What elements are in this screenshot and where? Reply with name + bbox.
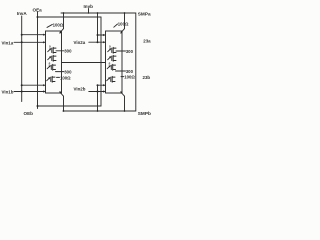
arrow Vin2b into box	[103, 90, 106, 92]
node InvA y34.7 dot	[21, 34, 23, 36]
wire jog x63.5 bottom	[63, 96, 65, 111]
svg-text:300: 300	[126, 69, 134, 74]
svg-text:δ: δ	[109, 45, 111, 49]
transistor Q1	[48, 47, 56, 53]
node Vin1b dot	[21, 91, 23, 93]
wire Q1 output to 300 dash	[56, 50, 62, 52]
svg-text:OEb: OEb	[24, 111, 34, 116]
wire OE right rail x101	[100, 17, 102, 106]
svg-text:23b: 23b	[143, 75, 151, 80]
arrow Vin1a into box	[43, 41, 46, 43]
svg-text:δ: δ	[109, 62, 111, 66]
node OEb junction	[37, 105, 39, 107]
svg-text:SMPb: SMPb	[138, 111, 151, 116]
arrow y35 into right box	[103, 34, 106, 36]
arrow y34.7 into box	[43, 34, 46, 36]
node right y35 dot	[97, 34, 99, 36]
node x97.5 y13 dot	[97, 12, 99, 14]
wire SMPa rail y13 and right rail and SMPb rail y111	[61, 13, 136, 111]
transistor Q7	[107, 64, 115, 70]
wire Vin2b y91.5	[89, 91, 104, 93]
node left y85.2 dot	[21, 84, 23, 86]
arrow Vin1b into box	[43, 90, 46, 92]
leader 100ohm bottom-right	[121, 76, 124, 78]
wire OEa horizontal y17	[38, 16, 102, 18]
leader 100ohm top-left	[47, 24, 52, 27]
svg-text:δ: δ	[49, 62, 51, 66]
wire InvA rail	[21, 16, 23, 102]
leader 300 bottom-right	[122, 70, 126, 72]
wire drop x124.5 top	[124, 13, 126, 29]
wire jog x63.5 top	[63, 13, 65, 29]
leader 300 top-left	[62, 50, 65, 52]
wire right y85.2	[98, 84, 105, 86]
node drop top dot	[124, 12, 126, 14]
arrow Vin2a into box	[103, 41, 106, 43]
svg-text:Vin2a: Vin2a	[74, 40, 86, 45]
node x97.5 y111 dot	[97, 110, 99, 112]
transistor Q3	[47, 64, 55, 70]
svg-text:Invb: Invb	[84, 4, 94, 9]
svg-text:300: 300	[64, 70, 72, 75]
wire Q3 output to 300 dash bottom-left	[56, 71, 62, 73]
transistor Q2	[48, 55, 56, 61]
node right y85.2 dot	[97, 84, 99, 86]
wire Vin1a y42.3	[14, 41, 44, 43]
transistor Q6	[108, 55, 116, 61]
svg-text:δ: δ	[49, 45, 51, 49]
wire Vin1b y91.5	[14, 91, 44, 93]
wire OEb y106	[38, 105, 102, 107]
svg-text:100Ω: 100Ω	[53, 22, 64, 27]
svg-text:100Ω: 100Ω	[124, 75, 135, 80]
wire x97.5 bottom rail	[97, 85, 99, 111]
switch box U2 right	[106, 31, 123, 93]
svg-text:100Ω: 100Ω	[118, 22, 129, 27]
transistor Q5	[108, 47, 116, 53]
leader 100ohm top-right	[114, 24, 118, 27]
leader 300 top-right	[122, 50, 126, 52]
arrow y85.2 into box	[43, 84, 46, 86]
node jog top dot	[63, 12, 65, 14]
leader 300 bottom-left	[62, 71, 65, 73]
node Vin2b dot	[97, 91, 99, 93]
svg-text:Vin2b: Vin2b	[74, 86, 86, 91]
transistor Q4	[47, 76, 55, 82]
transistor Q8	[107, 76, 115, 82]
svg-text:23a: 23a	[143, 39, 151, 44]
svg-text:SMPa: SMPa	[138, 11, 151, 16]
wire left y85.2	[22, 84, 44, 86]
wire drop x124.5 bottom	[124, 96, 126, 111]
wire right y35	[98, 34, 105, 36]
leader 100ohm bottom-left	[57, 76, 60, 78]
svg-text:Vin1b: Vin1b	[2, 89, 14, 94]
wire Vin2a y42	[89, 41, 104, 43]
wire Q5 output to 300 dash right	[116, 50, 122, 52]
svg-text:300: 300	[126, 49, 134, 54]
svg-text:300: 300	[64, 49, 72, 54]
node Invb junction	[88, 12, 90, 14]
arrow right y85.2 into box	[103, 84, 106, 86]
wire arrow into left box bottom-right	[60, 92, 63, 96]
svg-text:100Ω: 100Ω	[60, 75, 71, 80]
wire Invb tick	[88, 9, 90, 14]
node Vin2a x97.5 dot	[97, 41, 99, 43]
wire arrow into right box top-right	[121, 29, 124, 33]
wire Invb drop rail x97.5 top	[97, 13, 99, 42]
wire InvA y34.7	[22, 34, 44, 36]
svg-text:InvA: InvA	[17, 11, 28, 16]
wire arrow into right box bottom-right	[121, 92, 124, 96]
wire arrow into left box top-right	[60, 29, 63, 33]
node x63.5 y111 dot	[63, 110, 65, 112]
node x124.5 y111 dot	[124, 110, 126, 112]
node OEa junction	[37, 16, 39, 18]
wire Q7 output to 300 dash bottom-right	[116, 70, 123, 72]
wire box-to-box y62.5	[62, 62, 106, 64]
svg-text:Vin1a: Vin1a	[2, 40, 14, 45]
wire OEa rail	[37, 12, 39, 109]
node Vin1a InvA dot	[21, 41, 23, 43]
switch box U1 left	[46, 31, 62, 93]
